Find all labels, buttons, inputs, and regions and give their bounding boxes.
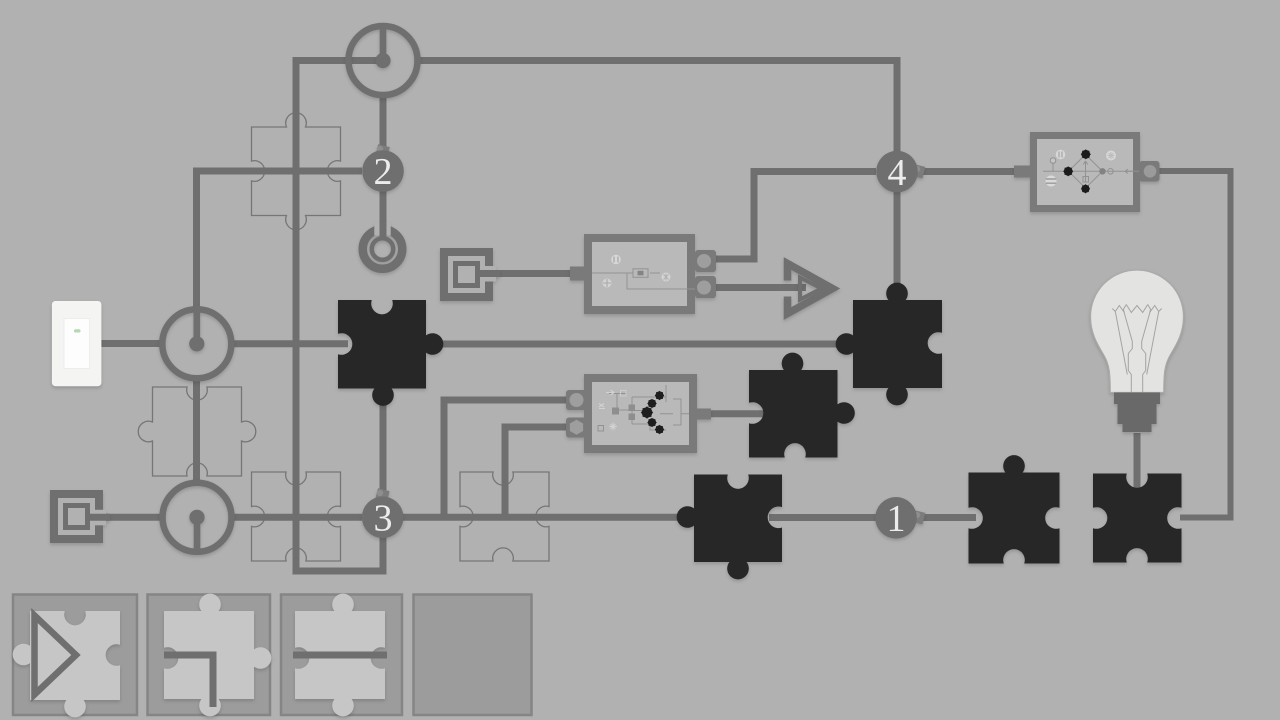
- wire socket square 2 to dial 3: [85, 514, 164, 521]
- black puzzle piece P1 (left of long wire): [338, 300, 443, 406]
- wire dial 2 right to piece P1: [231, 340, 348, 347]
- socket square 1 (top, near box1): [440, 248, 500, 301]
- empty slot near node 2: [252, 113, 341, 230]
- tray box 3: [281, 594, 402, 717]
- tray box 2: [148, 594, 272, 717]
- wire box2 output to piece P2: [709, 410, 764, 417]
- wire piece P1 bottom to node 3: [380, 401, 387, 497]
- wire dial 2 bottom to dial 3: [193, 378, 200, 485]
- black puzzle piece PA (left of node 1): [677, 475, 782, 580]
- wire dial 3 right to node 3: [231, 514, 363, 521]
- svg-text:4: 4: [888, 152, 907, 194]
- wire switch to dial 2: [95, 340, 163, 347]
- wire node 1 right to piece PB: [918, 514, 976, 521]
- black puzzle piece PC (below bulb): [1093, 474, 1182, 563]
- wire box1 lower output to arrow: [714, 284, 806, 291]
- tray box 4 (empty): [414, 595, 532, 716]
- wire top dial bottom to node 2: [380, 98, 387, 151]
- arrow component: [788, 264, 833, 314]
- black puzzle piece PB (right of node 1): [969, 455, 1060, 563]
- light bulb: [1091, 270, 1184, 432]
- svg-text:2: 2: [374, 151, 393, 193]
- socket square 2 (bottom left): [50, 490, 110, 543]
- dial 1 (top): [349, 26, 418, 95]
- wire bulb to piece PC: [1134, 433, 1141, 488]
- empty slot left of node 3: [252, 472, 341, 561]
- wire node 4 down to piece P3: [894, 192, 901, 299]
- socket ring below node 2: [363, 222, 403, 269]
- wire node 4 left to box1 upper output: [714, 172, 876, 260]
- wire node 2 left from dial 2 corner: [197, 171, 363, 310]
- node 4: [876, 151, 925, 194]
- wire box1 left to socket square 1: [476, 270, 580, 277]
- empty slot between left dials: [138, 387, 256, 476]
- component box 1: [570, 234, 716, 314]
- wire node 3 right to piece PA: [403, 514, 690, 521]
- wire node 1 left from piece PA: [769, 514, 876, 521]
- wire branch to box2 lower input: [505, 427, 567, 519]
- tray box 1: [13, 595, 137, 718]
- dial 2 (left middle): [162, 309, 231, 378]
- wire branch to box2 upper input: [444, 400, 567, 519]
- node 2: [362, 144, 404, 193]
- empty slot outlines: [138, 113, 549, 561]
- node 3: [362, 488, 404, 539]
- black puzzle piece P2 (right of box2): [749, 353, 855, 458]
- wire long horizontal P1 to P3: [425, 341, 853, 348]
- wire top dial right to node 4: [418, 61, 898, 161]
- node 1: [875, 497, 925, 540]
- empty slot right of node 3: [460, 472, 549, 561]
- wire box3 right loop down to piece PC: [1158, 171, 1231, 518]
- dial 3 (bottom left): [163, 483, 232, 552]
- component box 2: [566, 374, 711, 453]
- svg-text:1: 1: [887, 498, 906, 540]
- wire big left loop: top dial to node3 bottom: [296, 61, 383, 572]
- light switch: [52, 301, 102, 386]
- wire node 2 to socket ring: [380, 191, 387, 236]
- svg-text:3: 3: [374, 498, 393, 540]
- component box 3 (top right): [1014, 132, 1160, 212]
- black puzzle piece P3 (below node 4): [836, 283, 942, 406]
- wire node 4 right to box3: [918, 168, 1030, 175]
